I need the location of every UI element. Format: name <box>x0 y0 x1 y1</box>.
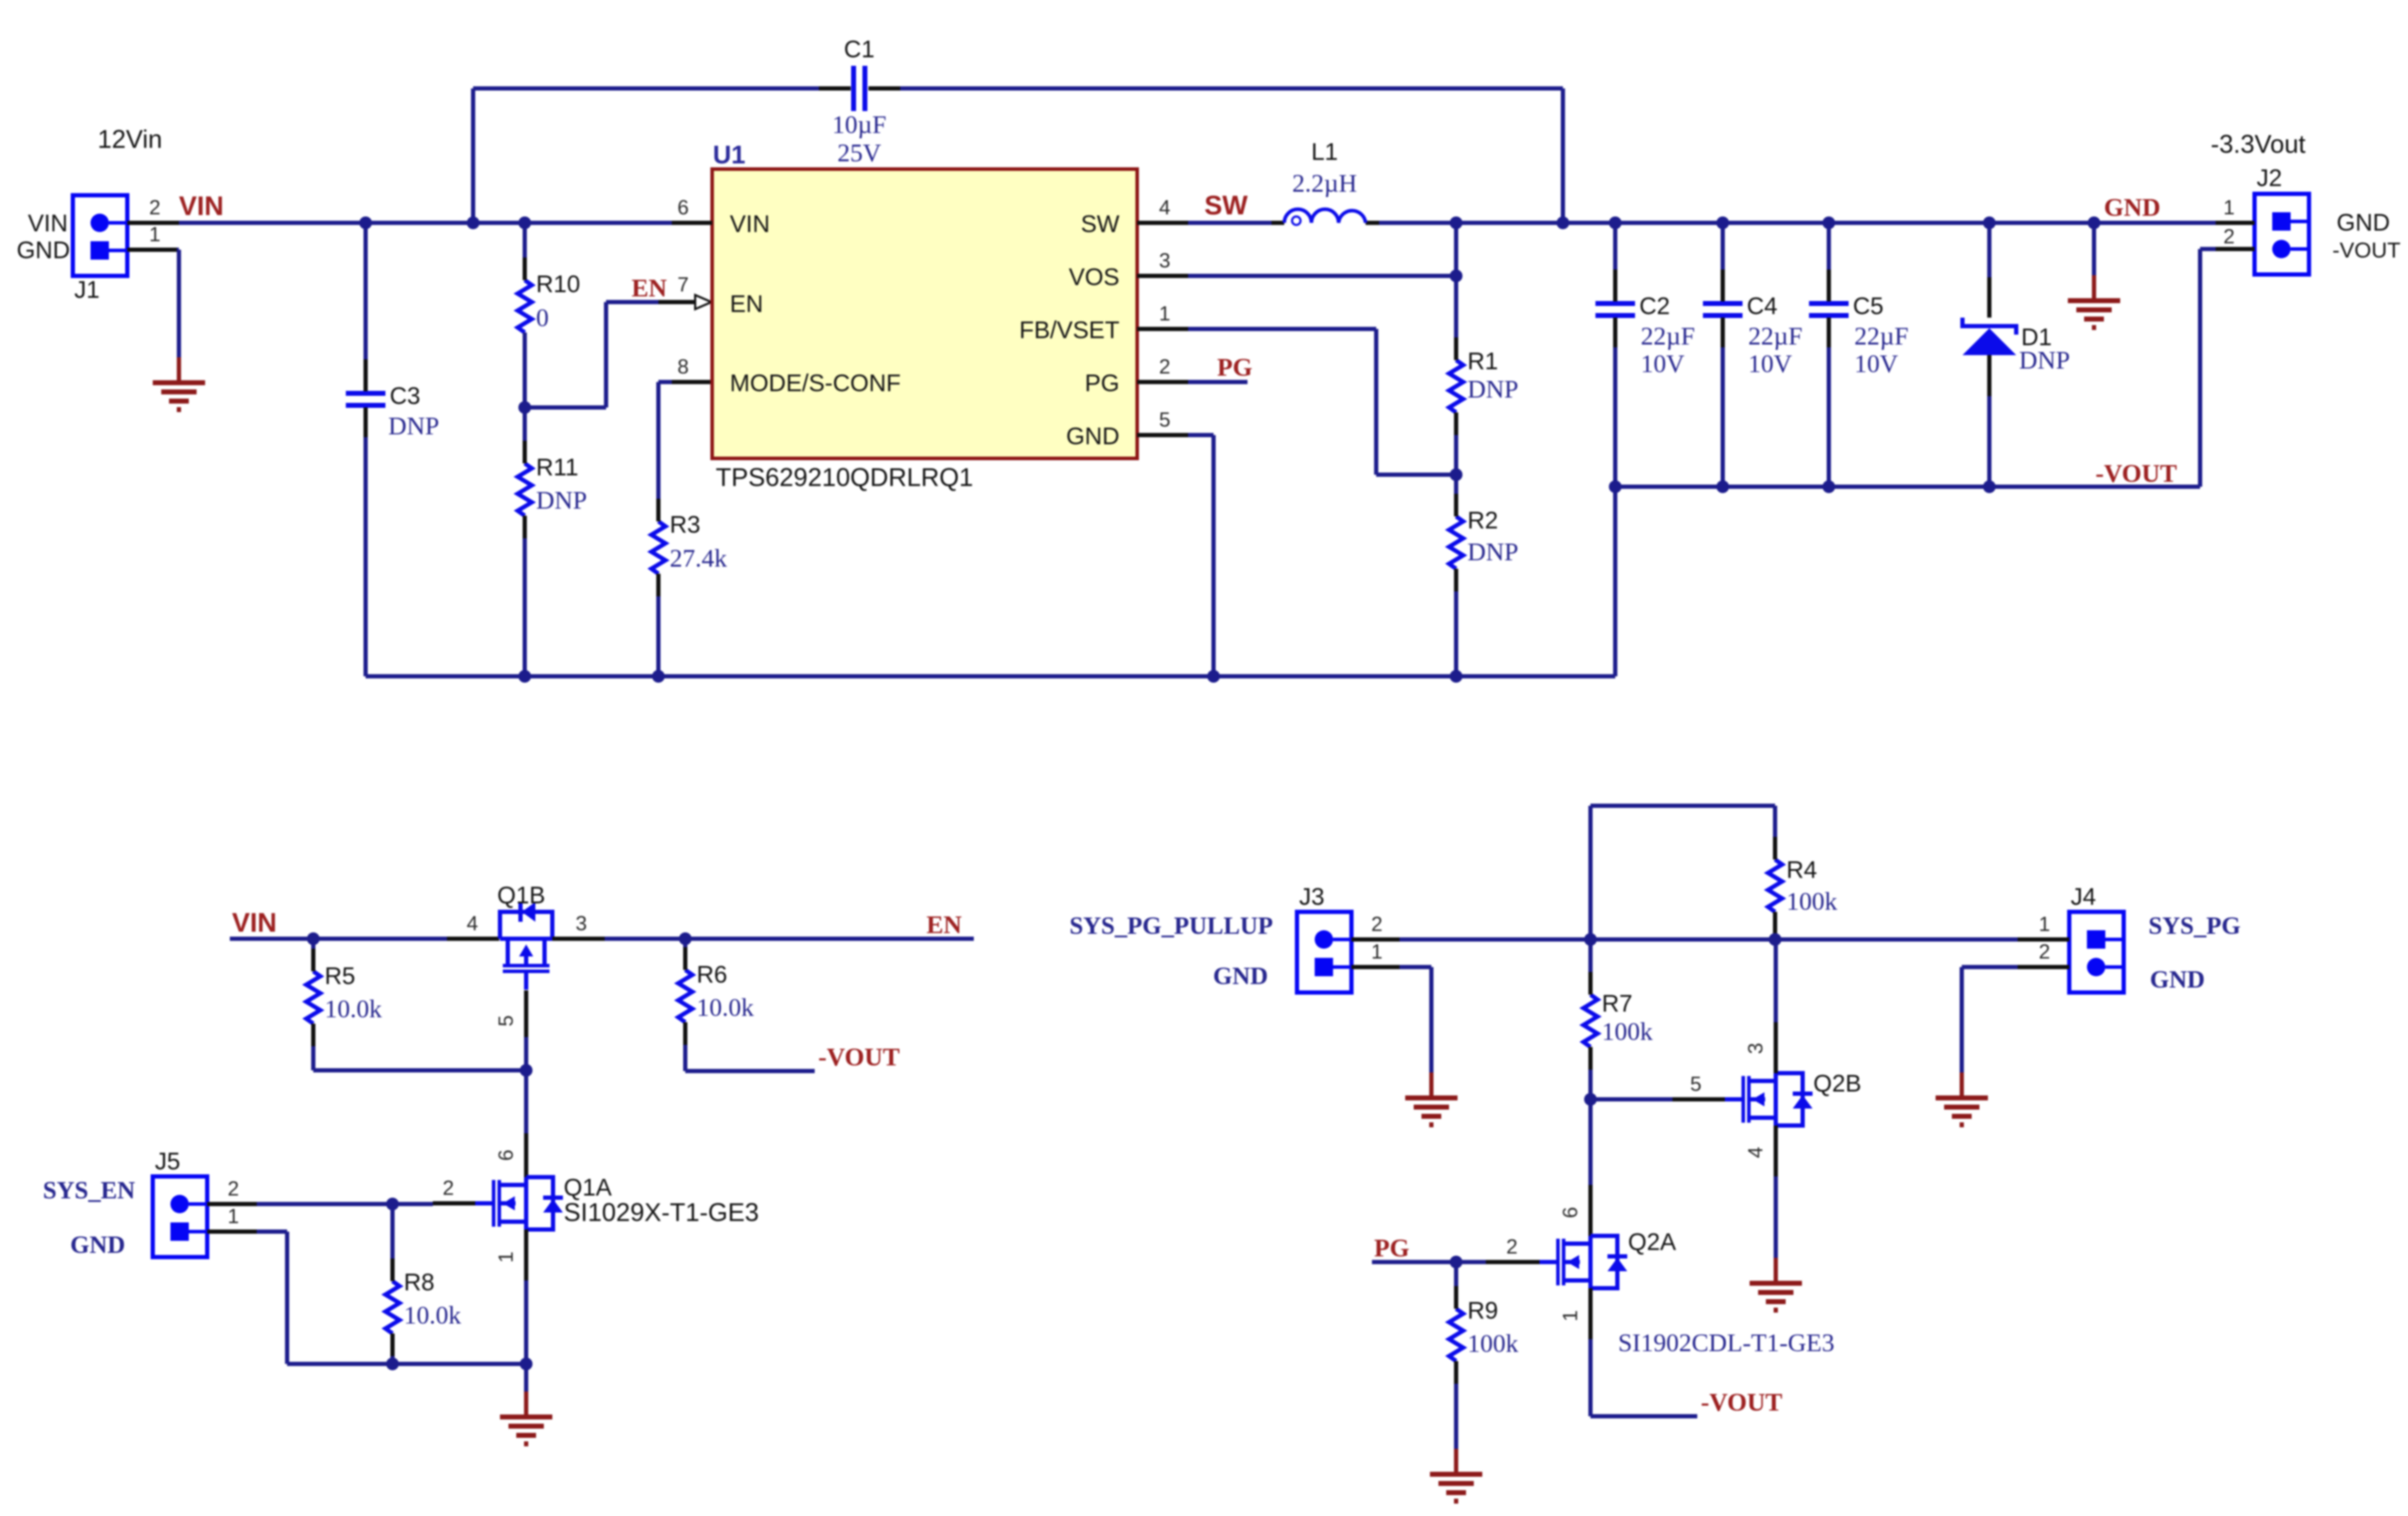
node rail-R3 <box>652 670 665 683</box>
wire R4 top <box>1773 806 1777 837</box>
U1 pin 6 stub <box>672 197 712 223</box>
wire R8 top <box>390 1204 395 1260</box>
ground J3 <box>1405 1072 1458 1125</box>
U1 pin 8 stub <box>672 356 712 382</box>
D1 value DNP <box>2019 346 2070 374</box>
svg-text:J4: J4 <box>2071 884 2096 910</box>
node VOS-R1 <box>1450 270 1462 282</box>
wire SYS_PG line <box>1400 937 2018 942</box>
svg-text:25V: 25V <box>837 139 881 167</box>
J5 pin 1 stub <box>207 1205 257 1232</box>
C5 value 22uF <box>1854 322 1909 350</box>
Q1A pin 2 stub <box>433 1177 475 1203</box>
connector J5 (SYS_EN header) <box>153 1148 207 1257</box>
R1 value DNP <box>1467 375 1518 403</box>
svg-text:2: 2 <box>1506 1236 1518 1258</box>
R3 value 27.4k <box>670 544 727 572</box>
wire R6 to -VOUT <box>685 1045 815 1071</box>
wire C3 top <box>363 223 368 359</box>
J2 side label -VOUT <box>2332 238 2401 262</box>
svg-text:22µF: 22µF <box>1748 322 1803 350</box>
svg-text:3: 3 <box>1159 250 1170 272</box>
svg-text:C4: C4 <box>1747 293 1777 320</box>
C3 value DNP <box>388 412 439 440</box>
harness label GND J3 <box>1213 962 1268 990</box>
J3 pin 2 stub <box>1351 913 1400 939</box>
U1 pin 4 stub <box>1137 197 1188 223</box>
svg-text:PG: PG <box>1374 1234 1409 1262</box>
svg-text:GND: GND <box>2150 966 2205 993</box>
svg-text:DNP: DNP <box>2019 346 2070 374</box>
U1 pin name FB/VSET <box>1019 317 1119 344</box>
node SWout-R1 <box>1450 216 1462 229</box>
node VIN-R5 <box>307 932 320 945</box>
node VIN-C3 <box>359 216 372 229</box>
wire gate Q2B <box>1590 1097 1673 1101</box>
wire bottom rail <box>366 674 1615 678</box>
svg-text:VIN: VIN <box>232 908 277 938</box>
wire C1 riser left <box>471 88 475 223</box>
J3 pin 1 stub <box>1351 941 1400 967</box>
wire R7 top <box>1588 939 1593 972</box>
U1 pin 3 stub <box>1137 250 1188 276</box>
R7 value 100k <box>1602 1017 1653 1046</box>
svg-text:J3: J3 <box>1299 884 1325 910</box>
ground R9 <box>1430 1449 1482 1501</box>
wire R5 top <box>311 939 315 950</box>
svg-text:1: 1 <box>2223 197 2235 219</box>
J2 side label GND <box>2337 209 2390 236</box>
U1 pin name MODE/S-CONF <box>730 370 901 397</box>
wire R10 top <box>523 223 527 258</box>
wire out main <box>1456 221 2216 225</box>
wire GND5 run <box>1188 435 1214 676</box>
svg-text:DNP: DNP <box>1467 375 1518 403</box>
svg-text:GND: GND <box>2104 193 2160 221</box>
svg-text:Q2A: Q2A <box>1628 1229 1676 1256</box>
resistor R1 <box>1449 337 1498 435</box>
wire rail riser <box>1613 487 1617 676</box>
Q1B pin 5 stub <box>495 990 526 1037</box>
svg-text:7: 7 <box>677 274 689 296</box>
svg-text:PG: PG <box>1085 370 1119 397</box>
node SYSEN-R8 <box>386 1198 399 1210</box>
svg-text:-VOUT: -VOUT <box>818 1043 900 1071</box>
wire R1 leads <box>1454 276 1458 475</box>
Q1B pin 4 stub <box>447 913 499 939</box>
svg-text:EN: EN <box>926 910 962 939</box>
svg-text:R7: R7 <box>1602 990 1632 1017</box>
R2 value DNP <box>1467 538 1518 566</box>
svg-text:PG: PG <box>1217 353 1252 381</box>
U1 pin 1 stub <box>1137 303 1188 329</box>
wire C3 bottom <box>363 437 368 676</box>
Q2B pin 3 stub <box>1745 1022 1776 1073</box>
svg-text:GND: GND <box>70 1231 125 1258</box>
svg-text:1: 1 <box>1559 1310 1582 1321</box>
svg-text:VIN: VIN <box>730 211 770 238</box>
Q1A part number <box>564 1198 759 1227</box>
net label EN lower <box>926 910 962 939</box>
node FB-R2 <box>1450 468 1462 481</box>
svg-text:R6: R6 <box>697 961 727 988</box>
inductor L1 <box>1272 139 1379 225</box>
J2 pin 2 stub <box>2216 226 2255 249</box>
C2 value 22uF <box>1641 322 1695 350</box>
resistor R2 <box>1449 494 1498 591</box>
wire C4 bottom <box>1721 347 1725 487</box>
node rail-R11 <box>518 670 531 683</box>
R4 value 100k <box>1786 887 1837 915</box>
node R10-R11-EN <box>518 401 531 414</box>
label -3.3Vout <box>2211 129 2305 158</box>
svg-text:FB/VSET: FB/VSET <box>1019 317 1119 344</box>
wire VOS <box>1188 274 1456 278</box>
wire J5 pin1 run <box>257 1232 526 1364</box>
wire R7 bottom <box>1588 1070 1593 1099</box>
wire J1 gnd drop <box>177 250 179 357</box>
wire VIN lower <box>230 937 447 941</box>
resistor R8 <box>385 1258 434 1356</box>
svg-text:10V: 10V <box>1748 349 1792 378</box>
svg-text:DNP: DNP <box>536 486 587 514</box>
wire J4 pin2 run <box>1962 967 2018 1072</box>
svg-text:2.2µH: 2.2µH <box>1292 169 1357 197</box>
U1 pin name GND <box>1066 423 1119 450</box>
Q1B pin 3 stub <box>552 913 605 939</box>
svg-text:1: 1 <box>2039 913 2050 936</box>
net label PG stub <box>1188 353 1252 382</box>
wire Q1A source down <box>524 1280 528 1364</box>
svg-text:DNP: DNP <box>1467 538 1518 566</box>
svg-text:2: 2 <box>1371 913 1383 936</box>
svg-text:-3.3Vout: -3.3Vout <box>2211 129 2305 158</box>
wire J2 pin2 drop <box>2200 249 2216 487</box>
ground output <box>2068 275 2120 328</box>
wire SW <box>1188 221 1272 225</box>
node pg-R4 <box>1769 933 1781 946</box>
wire R11 top <box>523 407 527 442</box>
node EN-R6 <box>679 932 692 945</box>
capacitor C4 <box>1703 223 1777 347</box>
svg-text:VOS: VOS <box>1069 264 1119 291</box>
wire Q2B drain up <box>1774 939 1778 1022</box>
Q2A part number <box>1618 1329 1834 1357</box>
label 12Vin <box>98 125 162 154</box>
U1 pin 5 stub <box>1137 409 1188 435</box>
J2 pin 1 stub <box>2216 197 2255 223</box>
svg-text:GND: GND <box>1066 423 1119 450</box>
node vout-C4 <box>1716 480 1729 493</box>
svg-text:100k: 100k <box>1602 1017 1653 1046</box>
svg-text:2: 2 <box>2039 941 2050 964</box>
Q1A pin 6 stub <box>495 1133 526 1177</box>
transistor Q1B <box>497 882 552 990</box>
harness label GND J5 <box>70 1231 125 1258</box>
svg-text:SW: SW <box>1204 191 1247 221</box>
R5 value 10.0k <box>325 995 382 1023</box>
transistor Q2B <box>1725 1070 1861 1126</box>
svg-text:100k: 100k <box>1467 1329 1518 1358</box>
J4 pin 1 stub <box>2018 913 2069 939</box>
svg-text:GND: GND <box>16 237 70 264</box>
node vout-C5 <box>1822 480 1835 493</box>
R8 value 10.0k <box>404 1301 461 1329</box>
svg-text:100k: 100k <box>1786 887 1837 915</box>
ground J4 <box>1936 1072 1988 1125</box>
capacitor C1 <box>819 36 900 111</box>
node out-C2 <box>1609 216 1622 229</box>
connector J4 (SYS_PG header) <box>2069 884 2124 993</box>
svg-text:-VOUT: -VOUT <box>2332 238 2401 262</box>
resistor R7 <box>1583 972 1632 1070</box>
node PG-R9 <box>1450 1256 1462 1268</box>
ground Q2B <box>1750 1258 1802 1310</box>
svg-text:DNP: DNP <box>388 412 439 440</box>
svg-text:R4: R4 <box>1786 857 1817 884</box>
J4 pin 2 stub <box>2018 941 2069 967</box>
wire R8 bottom <box>390 1355 395 1364</box>
net label VIN <box>179 192 223 221</box>
node gndrun-R8 <box>386 1358 399 1370</box>
svg-text:1: 1 <box>228 1205 239 1228</box>
resistor R11 <box>518 441 578 538</box>
svg-text:SYS_PG: SYS_PG <box>2148 912 2240 939</box>
node rail-R2 <box>1450 670 1462 683</box>
svg-text:1: 1 <box>1371 941 1383 964</box>
wire C1 top left <box>473 86 819 91</box>
node rail-GND5 <box>1207 670 1220 683</box>
svg-text:C5: C5 <box>1853 293 1883 320</box>
svg-text:10µF: 10µF <box>832 110 887 139</box>
svg-text:12Vin: 12Vin <box>98 125 162 154</box>
net label -VOUT right <box>2095 459 2177 487</box>
J5 pin 2 stub <box>207 1178 257 1204</box>
svg-text:SI1029X-T1-GE3: SI1029X-T1-GE3 <box>564 1198 759 1227</box>
svg-text:10.0k: 10.0k <box>404 1301 461 1329</box>
harness label SYS_PG <box>2148 912 2240 939</box>
node VIN-C1riser <box>467 216 479 229</box>
C1 value 10uF <box>832 110 887 139</box>
wire R2 bottom <box>1454 591 1458 676</box>
C2 value 10V <box>1641 349 1685 378</box>
svg-text:C3: C3 <box>390 383 420 410</box>
R11 value DNP <box>536 486 587 514</box>
svg-text:5: 5 <box>495 1015 518 1026</box>
wire R5 bottom <box>313 1046 526 1070</box>
U1 pin name PG <box>1085 370 1119 397</box>
svg-text:VIN: VIN <box>28 210 68 237</box>
svg-text:5: 5 <box>1159 409 1170 432</box>
ground Q1A <box>500 1364 552 1444</box>
node vout-C2 <box>1609 480 1622 493</box>
svg-text:R2: R2 <box>1467 507 1498 534</box>
wire C2 bottom <box>1613 347 1617 487</box>
C1 value 25V <box>837 139 881 167</box>
wire Q2A drain up <box>1588 1099 1593 1185</box>
resistor R6 <box>678 947 727 1045</box>
svg-text:2: 2 <box>149 197 161 219</box>
svg-text:22µF: 22µF <box>1641 322 1695 350</box>
transistor Q2A <box>1540 1229 1676 1288</box>
svg-text:R11: R11 <box>536 454 578 481</box>
svg-text:C1: C1 <box>844 36 874 63</box>
wire MODE to R3 <box>658 382 672 499</box>
svg-text:1: 1 <box>1159 303 1170 325</box>
connector J3 (SYS_PG_PULLUP header) <box>1297 884 1351 993</box>
U1 pin 7 stub with input arrow <box>658 274 711 309</box>
op-amp U1 TPS629210QDRLRQ1 body <box>712 140 1137 458</box>
R10 value 0 <box>536 303 549 332</box>
wire VIN main <box>179 221 672 225</box>
svg-text:0: 0 <box>536 303 549 332</box>
Q2B pin 5 stub <box>1673 1073 1725 1099</box>
wire J3 pin1 run <box>1400 967 1431 1072</box>
resistor R4 <box>1768 837 1817 935</box>
resistor R10 <box>518 258 580 355</box>
wire pullup top <box>1590 806 1775 939</box>
svg-text:1: 1 <box>495 1251 518 1263</box>
node out-D1 <box>1983 216 1996 229</box>
resistor R5 <box>306 949 355 1046</box>
node out-gnd <box>2088 216 2100 229</box>
svg-text:22µF: 22µF <box>1854 322 1909 350</box>
svg-text:4: 4 <box>1159 197 1170 219</box>
wire L1 to out <box>1379 221 1456 225</box>
svg-text:R1: R1 <box>1467 348 1498 375</box>
svg-text:R10: R10 <box>536 271 580 298</box>
node R7-Q2Bgate <box>1584 1093 1597 1106</box>
svg-text:-VOUT: -VOUT <box>1701 1388 1782 1416</box>
svg-text:VIN: VIN <box>179 192 223 221</box>
net label VIN lower <box>232 908 277 938</box>
wire R6 top <box>683 939 687 949</box>
R9 value 100k <box>1467 1329 1518 1358</box>
J1 side label GND <box>16 237 70 264</box>
U1 pin name SW <box>1081 211 1119 238</box>
capacitor C2 <box>1595 223 1670 347</box>
svg-text:EN: EN <box>632 274 667 302</box>
harness label SYS_EN <box>43 1176 135 1204</box>
svg-text:J1: J1 <box>74 277 100 303</box>
svg-text:10.0k: 10.0k <box>325 995 382 1023</box>
svg-text:2: 2 <box>228 1178 239 1200</box>
ground J1 <box>153 357 205 410</box>
U1 part number <box>716 463 973 492</box>
harness label SYS_PG_PULLUP <box>1069 912 1273 939</box>
wire C5 bottom <box>1827 347 1831 487</box>
net label EN <box>632 274 667 302</box>
wire Q2A source to -VOUT <box>1590 1339 1697 1416</box>
wire gate to node <box>524 1037 528 1070</box>
svg-text:3: 3 <box>1745 1043 1767 1054</box>
svg-text:R9: R9 <box>1467 1297 1498 1324</box>
Q2A pin 2 stub <box>1486 1236 1540 1262</box>
node VIN-R10 <box>518 216 531 229</box>
U1 pin name VOS <box>1069 264 1119 291</box>
wire C1 riser right <box>1561 88 1565 223</box>
wire FB run <box>1188 329 1456 475</box>
svg-text:6: 6 <box>1559 1207 1582 1218</box>
U1 pin 2 stub <box>1137 356 1188 382</box>
node out-C5 <box>1822 216 1835 229</box>
U1 pin name EN <box>730 291 763 318</box>
resistor R9 <box>1449 1286 1498 1384</box>
R6 value 10.0k <box>697 993 754 1022</box>
net label SW <box>1204 191 1247 221</box>
svg-text:L1: L1 <box>1311 139 1338 166</box>
svg-text:4: 4 <box>1745 1147 1767 1158</box>
node gndrun-Q1A <box>520 1358 533 1370</box>
harness label GND J4 <box>2150 966 2205 993</box>
svg-text:6: 6 <box>495 1150 518 1161</box>
svg-text:3: 3 <box>576 913 587 935</box>
wire EN lower <box>605 937 974 941</box>
wire C1 top right <box>900 86 1563 91</box>
wire SYS_EN to gate <box>257 1202 433 1206</box>
svg-text:2: 2 <box>1159 356 1170 378</box>
node pg-R7 <box>1584 933 1597 946</box>
wire R4 bottom <box>1773 935 1777 939</box>
svg-text:U1: U1 <box>713 140 745 169</box>
wire R10 bottom <box>523 332 527 407</box>
connector J2 (-3.3Vout header) <box>2255 165 2309 274</box>
svg-text:GND: GND <box>1213 962 1268 990</box>
svg-text:J5: J5 <box>155 1148 180 1175</box>
svg-text:SYS_EN: SYS_EN <box>43 1176 135 1204</box>
C4 value 10V <box>1748 349 1792 378</box>
J1 pin 2 stub <box>127 197 179 223</box>
wire PG lower <box>1372 1260 1486 1264</box>
transistor Q1A <box>475 1174 612 1229</box>
wire R9 bottom <box>1454 1384 1458 1449</box>
U1 pin name VIN <box>730 211 770 238</box>
svg-text:C2: C2 <box>1639 293 1670 320</box>
svg-text:GND: GND <box>2337 209 2390 236</box>
Q1A pin 1 stub <box>495 1229 526 1280</box>
wire R11 bottom <box>523 538 527 676</box>
C5 value 10V <box>1854 349 1898 378</box>
svg-text:R8: R8 <box>404 1269 434 1296</box>
svg-text:27.4k: 27.4k <box>670 544 727 572</box>
node out-C4 <box>1716 216 1729 229</box>
svg-text:6: 6 <box>677 197 689 219</box>
wire -VOUT rail <box>1615 485 2200 489</box>
svg-text:2: 2 <box>443 1177 454 1200</box>
wire R2 top <box>1454 475 1458 495</box>
svg-text:5: 5 <box>1690 1073 1702 1096</box>
svg-text:8: 8 <box>677 356 689 378</box>
Q2A pin 6 stub <box>1559 1185 1590 1236</box>
capacitor C5 <box>1809 223 1883 347</box>
svg-text:2: 2 <box>2223 226 2235 248</box>
node R5-Q1B gate <box>520 1064 533 1077</box>
svg-text:EN: EN <box>730 291 763 318</box>
connector J1 (12Vin input header) <box>73 195 127 303</box>
wire Q2B source down <box>1774 1176 1778 1258</box>
J1 side label VIN <box>28 210 68 237</box>
wire gnd drop right <box>2092 223 2096 275</box>
svg-text:10V: 10V <box>1854 349 1898 378</box>
C4 value 22uF <box>1748 322 1803 350</box>
svg-text:10.0k: 10.0k <box>697 993 754 1022</box>
net label -VOUT lower right <box>1701 1388 1782 1416</box>
J1 pin 1 stub <box>127 224 179 250</box>
wire node to Q1A <box>524 1070 528 1133</box>
svg-text:Q2B: Q2B <box>1813 1070 1861 1097</box>
diode D1 (zener, DNP) <box>1962 223 2052 487</box>
capacitor C3 <box>346 359 420 437</box>
